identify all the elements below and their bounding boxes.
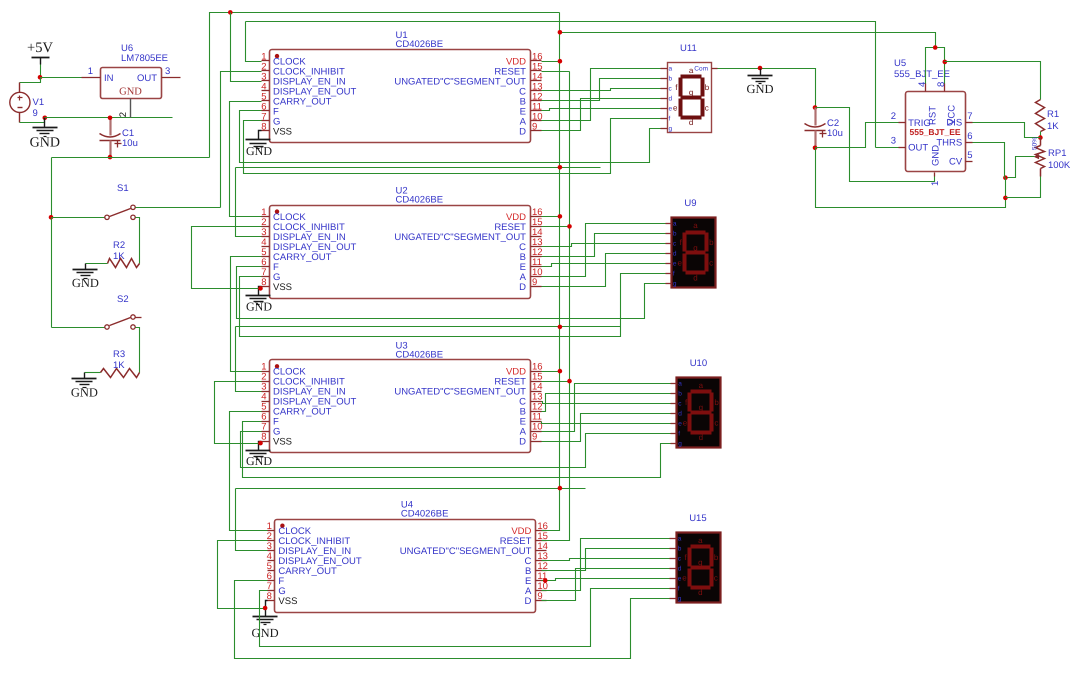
wire RESET riser <box>542 72 570 541</box>
svg-text:D: D <box>519 437 526 448</box>
svg-text:DIS: DIS <box>946 118 962 129</box>
ground GND (U3) <box>246 447 273 469</box>
svg-text:CARRY_OUT: CARRY_OUT <box>273 96 332 107</box>
wire VDD riser x209.7 / rail A <box>210 13 560 158</box>
counter U2 CD4026BE <box>261 186 542 299</box>
svg-text:a: a <box>699 381 704 390</box>
potentiometer RP1 100K <box>1032 137 1071 177</box>
svg-text:GND: GND <box>252 626 279 640</box>
wire seg A U1 <box>542 69 661 121</box>
wire U4 pin2 tie to VSS <box>218 541 268 609</box>
svg-text:d: d <box>699 433 703 442</box>
wire OUT wire <box>876 147 899 149</box>
wire seg G U1 <box>244 119 661 174</box>
wire seg B U2 <box>542 234 666 257</box>
svg-text:6: 6 <box>967 131 972 142</box>
svg-text:g: g <box>669 126 673 133</box>
svg-text:d: d <box>698 588 702 597</box>
wire GND rail <box>45 117 173 119</box>
wire seg D U2 <box>542 254 666 287</box>
node C1 bottom node <box>108 155 113 160</box>
svg-text:g: g <box>678 441 682 448</box>
wire U3 RESET stub wire <box>542 381 570 383</box>
ground GND (U4) <box>252 609 279 641</box>
node GND node A <box>43 116 48 121</box>
wire seg F U2 <box>237 267 666 319</box>
svg-text:d: d <box>693 273 697 282</box>
svg-text:3: 3 <box>891 136 896 147</box>
resistor R3 1K <box>101 349 140 378</box>
wire to S1 common <box>52 217 105 219</box>
node Com GND node <box>758 66 763 71</box>
svg-text:2: 2 <box>891 111 896 122</box>
svg-text:a: a <box>669 66 673 73</box>
svg-text:f: f <box>678 431 680 438</box>
wire THRS to RP1 bottom link <box>1005 178 1007 198</box>
wire U2 pin2 tie to VSS <box>192 227 262 289</box>
svg-text:Com: Com <box>694 66 708 73</box>
svg-text:50%: 50% <box>1032 137 1039 150</box>
display U9 <box>666 198 716 288</box>
wire seg D U1 <box>542 99 661 131</box>
node +5V junction <box>38 75 43 80</box>
wire S1 riser to U1 pin2 <box>221 72 262 208</box>
svg-text:UNGATED"C"SEGMENT_OUT: UNGATED"C"SEGMENT_OUT <box>400 546 532 557</box>
svg-text:a: a <box>678 536 682 543</box>
svg-text:c: c <box>705 103 709 112</box>
svg-text:a: a <box>673 221 677 228</box>
voltage source V1 <box>10 83 44 123</box>
svg-text:U11: U11 <box>680 43 697 54</box>
wire V1- to GND node <box>20 118 45 123</box>
wire S1 throw to riser <box>136 207 221 209</box>
svg-text:S2: S2 <box>117 294 129 305</box>
wire Com line <box>718 69 816 108</box>
node U2 VSS node <box>258 286 263 291</box>
wire seg C U4 <box>542 559 670 561</box>
wire seg E U1 <box>542 109 661 111</box>
node S1 common junction <box>49 215 54 220</box>
wire seg E U3 <box>542 422 671 424</box>
svg-text:g: g <box>673 281 677 288</box>
svg-text:UNGATED"C"SEGMENT_OUT: UNGATED"C"SEGMENT_OUT <box>394 232 526 243</box>
svg-text:b: b <box>714 398 719 407</box>
svg-text:V1: V1 <box>33 97 45 108</box>
wire seg D U3 <box>542 414 671 442</box>
resistor R2 1K <box>108 240 140 268</box>
svg-text:f: f <box>669 116 671 123</box>
ground GND (Com) <box>746 69 773 97</box>
svg-text:IN: IN <box>104 73 114 84</box>
svg-text:VSS: VSS <box>273 282 292 293</box>
svg-text:e: e <box>678 421 682 428</box>
svg-text:1K: 1K <box>1047 121 1059 132</box>
wire RP1 bottom wire <box>1006 177 1041 198</box>
svg-text:a: a <box>693 221 698 230</box>
switch S2 <box>105 294 135 329</box>
ground GND (U1) <box>246 136 273 158</box>
wire to S2 common <box>52 327 105 329</box>
svg-text:S1: S1 <box>117 183 129 194</box>
svg-text:OUT: OUT <box>908 143 928 154</box>
svg-text:LM7805EE: LM7805EE <box>121 53 168 64</box>
node bracket node <box>933 45 938 50</box>
svg-text:c: c <box>709 259 713 268</box>
wire VDD riser x559.9 <box>542 13 560 531</box>
wire S common down to S2 <box>51 218 53 328</box>
svg-text:9: 9 <box>532 432 537 443</box>
svg-text:e: e <box>677 259 682 268</box>
U1 VSS wire <box>259 131 262 136</box>
wire U3 pin3 drop <box>236 327 262 392</box>
wire R3 to GND <box>85 372 101 374</box>
node rail C branch <box>558 30 563 35</box>
svg-text:g: g <box>693 243 697 252</box>
svg-text:CD4026BE: CD4026BE <box>396 195 444 206</box>
svg-text:VSS: VSS <box>273 437 292 448</box>
svg-text:a: a <box>678 381 682 388</box>
wire seg A U2 <box>542 224 666 277</box>
svg-text:b: b <box>673 231 677 238</box>
wire clock rail right <box>246 22 876 148</box>
timer U5 555_BJT_EE <box>891 58 973 186</box>
wire U1 RESET stub wire <box>542 71 570 73</box>
svg-text:1K: 1K <box>113 251 125 262</box>
wire seg B U3 <box>542 394 671 412</box>
svg-text:10u: 10u <box>827 128 843 139</box>
svg-text:b: b <box>709 238 714 247</box>
svg-text:9: 9 <box>532 277 537 288</box>
wire U2 RESET stub wire <box>542 226 570 228</box>
svg-text:f: f <box>678 586 680 593</box>
wire VDD feed line y167.3 <box>236 167 601 169</box>
resistor R1 1K <box>1036 100 1060 133</box>
capacitor C1 10u <box>100 118 138 158</box>
svg-text:GND: GND <box>72 276 99 290</box>
ground GND (V1) <box>30 118 60 151</box>
svg-text:555_BJT_EE: 555_BJT_EE <box>894 69 950 80</box>
svg-text:8: 8 <box>261 432 266 443</box>
svg-text:b: b <box>669 76 673 83</box>
node VCC branch node <box>943 60 948 65</box>
wire +5V to U6 IN <box>41 77 82 79</box>
wire U3 VDD stub wire <box>542 371 560 373</box>
svg-text:e: e <box>669 106 673 113</box>
wire seg B U4 <box>542 549 670 571</box>
wire VDD to R1 <box>945 62 1041 100</box>
wire seg C U2 <box>542 244 666 247</box>
wire +5V to V1+ <box>20 78 41 83</box>
svg-text:VSS: VSS <box>278 596 297 607</box>
svg-text:CARRY_OUT: CARRY_OUT <box>273 252 332 263</box>
svg-text:CD4026BE: CD4026BE <box>401 509 449 520</box>
svg-text:9: 9 <box>33 108 38 119</box>
node VDD node U2 <box>558 214 563 219</box>
svg-text:7: 7 <box>967 111 972 122</box>
node VDD node U1 <box>558 59 563 64</box>
switch S1 <box>105 183 135 220</box>
svg-text:d: d <box>678 566 682 573</box>
wire U1 pin3 feed <box>231 13 262 82</box>
U2 VSS wire <box>259 287 262 292</box>
counter U4 CD4026BE <box>267 500 548 613</box>
wire rail C <box>560 33 936 48</box>
node U4 pin11 node <box>543 578 548 583</box>
svg-text:c: c <box>714 418 718 427</box>
node C1 top node <box>108 116 113 121</box>
svg-text:8: 8 <box>261 277 266 288</box>
display U10 <box>671 358 721 448</box>
svg-text:g: g <box>699 403 703 412</box>
svg-text:GND: GND <box>246 299 272 313</box>
wire VDD feed line y488.1 <box>236 488 586 490</box>
svg-text:e: e <box>673 103 678 112</box>
wire U1 VDD stub wire <box>542 61 560 63</box>
wire wiper wire <box>1006 157 1035 178</box>
svg-text:c: c <box>714 573 718 582</box>
display U15 <box>670 513 721 603</box>
wire carry U1->U2 <box>230 102 262 217</box>
svg-text:8: 8 <box>261 121 266 132</box>
svg-text:GND: GND <box>931 145 942 166</box>
svg-text:R1: R1 <box>1047 109 1059 120</box>
wire U2 VDD stub wire <box>542 216 560 218</box>
wire carry U2->U3 <box>231 257 262 372</box>
wire U5 GND wire <box>816 108 935 182</box>
wire seg F U1 <box>240 111 661 163</box>
svg-text:1K: 1K <box>113 360 125 371</box>
wire seg A U4 <box>542 539 670 591</box>
svg-text:U9: U9 <box>684 198 696 209</box>
svg-text:CD4026BE: CD4026BE <box>396 39 444 50</box>
node VDD feed node y326.9 <box>558 325 563 330</box>
S2 open throw stub <box>136 317 142 319</box>
wire seg D U4 <box>542 569 670 601</box>
U3 VSS wire <box>259 442 262 447</box>
svg-text:U10: U10 <box>690 358 707 369</box>
svg-text:b: b <box>705 83 710 92</box>
svg-text:10u: 10u <box>122 138 138 149</box>
svg-text:e: e <box>673 261 677 268</box>
svg-text:5: 5 <box>967 150 972 161</box>
wire clock rail y21.7 <box>246 22 262 62</box>
wire seg B U1 <box>542 79 661 101</box>
svg-text:e: e <box>682 573 687 582</box>
svg-text:g: g <box>689 88 693 97</box>
svg-text:d: d <box>673 251 677 258</box>
node C2 top node <box>813 105 818 110</box>
svg-text:CARRY_OUT: CARRY_OUT <box>278 566 337 577</box>
svg-text:RP1: RP1 <box>1048 148 1066 159</box>
wire THRS wire <box>973 143 1005 178</box>
svg-text:g: g <box>698 558 702 567</box>
svg-text:VSS: VSS <box>273 126 292 137</box>
svg-text:b: b <box>678 546 682 553</box>
node VDD feed node y488.1 <box>558 486 563 491</box>
counter U1 CD4026BE <box>261 30 542 142</box>
svg-text:GND: GND <box>246 144 272 158</box>
svg-text:UNGATED"C"SEGMENT_OUT: UNGATED"C"SEGMENT_OUT <box>394 387 526 398</box>
display U11 <box>661 43 718 133</box>
svg-text:a: a <box>689 66 694 75</box>
svg-text:2: 2 <box>118 112 129 117</box>
wire VDD feed line y326.9 <box>236 326 621 328</box>
svg-text:CV: CV <box>949 157 963 168</box>
svg-text:U15: U15 <box>689 513 706 524</box>
counter U3 CD4026BE <box>261 340 542 452</box>
svg-text:GND: GND <box>30 135 60 150</box>
ground GND (R3) <box>71 373 98 400</box>
node RESET node U3 <box>567 379 572 384</box>
svg-text:CARRY_OUT: CARRY_OUT <box>273 407 332 418</box>
svg-text:e: e <box>683 418 688 427</box>
node U3 VSS node <box>258 441 263 446</box>
svg-text:4: 4 <box>917 82 928 87</box>
wire RST/VCC bracket <box>926 48 945 84</box>
wire seg E U2 <box>542 264 666 267</box>
node U4 VSS node <box>263 606 268 611</box>
svg-text:R3: R3 <box>113 349 125 360</box>
ground GND (R2) <box>72 264 99 291</box>
svg-text:d: d <box>689 118 693 127</box>
ground GND (U2) <box>246 292 273 314</box>
svg-text:f: f <box>673 271 675 278</box>
wire seg C U3 <box>542 402 671 404</box>
wire R1 to DIS node <box>1040 132 1042 138</box>
wire seg A U3 <box>542 384 671 432</box>
svg-text:d: d <box>678 411 682 418</box>
wire seg E U4 <box>542 579 670 581</box>
svg-text:U5: U5 <box>894 58 906 69</box>
wire S2 lower throw to R3 <box>136 328 140 373</box>
wire TRIG wire <box>816 123 899 148</box>
svg-text:GND: GND <box>746 82 773 96</box>
svg-text:1: 1 <box>88 66 93 77</box>
node RP1 bottom node <box>1003 196 1008 201</box>
wire U4 pin3 drop <box>236 489 268 551</box>
regulator U6 LM7805EE <box>82 43 181 118</box>
svg-text:GND: GND <box>71 386 98 400</box>
node C2 bottom node <box>813 146 818 151</box>
svg-text:D: D <box>519 282 526 293</box>
svg-text:d: d <box>669 96 673 103</box>
svg-text:9: 9 <box>532 121 537 132</box>
svg-text:100K: 100K <box>1048 160 1071 171</box>
wire S1 lower throw to R2 <box>136 218 140 264</box>
svg-text:D: D <box>525 596 532 607</box>
wire U3 pin2 tie to VSS <box>215 382 262 444</box>
capacitor C2 10u <box>805 108 843 148</box>
svg-text:D: D <box>519 126 526 137</box>
node THRS node <box>1003 175 1008 180</box>
wire R2 to GND <box>86 263 108 265</box>
wire seg F U3 <box>243 422 671 478</box>
wire seg F U4 <box>235 581 670 659</box>
power flag +5V <box>27 40 53 65</box>
svg-text:R2: R2 <box>113 240 125 251</box>
wire DIS wire <box>973 123 1041 138</box>
svg-text:TRIG: TRIG <box>908 118 931 129</box>
svg-text:b: b <box>714 553 719 562</box>
wire C2 bottom riser <box>816 148 1006 208</box>
svg-text:GND: GND <box>246 454 272 468</box>
wire VDD rail y157 <box>52 157 210 159</box>
node VDD node U3 <box>558 369 563 374</box>
wire S-common riser x51 <box>51 158 53 218</box>
wire carry U3->U4 <box>230 412 268 531</box>
svg-text:b: b <box>678 391 682 398</box>
svg-text:a: a <box>698 536 703 545</box>
svg-text:GND: GND <box>119 87 142 98</box>
svg-text:8: 8 <box>936 82 947 87</box>
svg-text:CD4026BE: CD4026BE <box>396 349 444 360</box>
svg-text:g: g <box>678 596 682 603</box>
svg-text:OUT: OUT <box>137 73 157 84</box>
svg-text:3: 3 <box>165 66 170 77</box>
svg-text:UNGATED"C"SEGMENT_OUT: UNGATED"C"SEGMENT_OUT <box>394 76 526 87</box>
node R1/RP1/DIS node <box>1038 135 1043 140</box>
wire seg G U2 <box>240 274 666 337</box>
svg-text:e: e <box>678 576 682 583</box>
U4 VSS wire <box>266 601 268 609</box>
wire +5V to junction <box>40 65 42 78</box>
wire seg C U1 <box>542 89 661 91</box>
wire U2 pin3 drop <box>236 168 262 237</box>
node rail A branch <box>228 10 233 15</box>
node RESET node U2 <box>567 224 572 229</box>
wire seg G U3 <box>241 432 671 468</box>
wire seg G U4 <box>260 589 670 647</box>
svg-text:+5V: +5V <box>27 40 53 56</box>
node VDD feed node y167.3 <box>558 165 563 170</box>
